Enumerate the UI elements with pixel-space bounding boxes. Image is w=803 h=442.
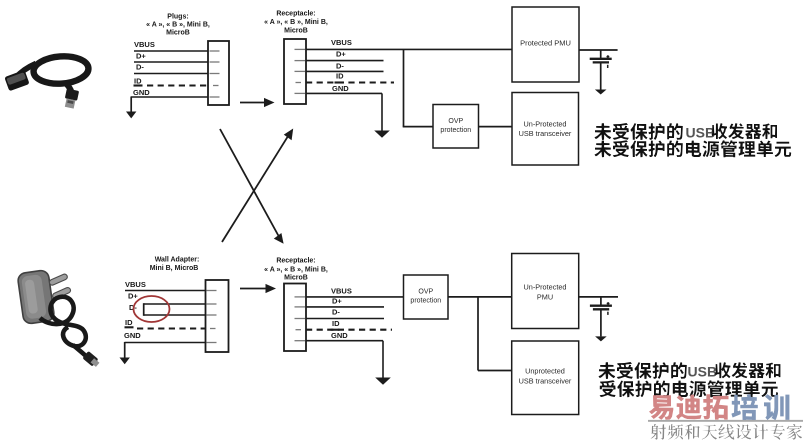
wire VBUS to OVP horizontal top <box>403 126 433 128</box>
wire D+ adapter <box>144 303 206 305</box>
pin stub GND plug <box>210 96 220 98</box>
wire GND drop bottom <box>382 341 384 378</box>
wire junction drop to transceiver <box>477 297 479 371</box>
svg-text:Receptacle:: Receptacle: <box>276 258 315 265</box>
battery B1 with ground (top) <box>579 50 618 95</box>
svg-text:ID: ID <box>336 71 344 80</box>
wire D- plug <box>134 73 209 75</box>
arrow cross up-right <box>222 129 293 243</box>
receptacle connector box top <box>284 39 306 104</box>
watermark tagline 射频和天线设计专家 <box>651 424 803 440</box>
pin stub D+ receptacle bottom <box>295 306 306 308</box>
pin stub VBUS adapter <box>207 290 217 292</box>
ground symbol receptacle bottom <box>375 378 391 385</box>
wire GND drop top <box>381 93 383 131</box>
pin stub VBUS receptacle top <box>295 48 306 50</box>
wire D- receptacle bottom <box>306 318 384 320</box>
wire D+/D- short <box>143 303 145 316</box>
svg-text:Mini B, MicroB: Mini B, MicroB <box>150 265 199 272</box>
pin stub ID receptacle top <box>296 82 302 84</box>
pin stub VBUS receptacle bottom <box>295 296 306 298</box>
svg-text:Unprotected: Unprotected <box>525 367 565 376</box>
photo: USB cable <box>4 55 89 110</box>
text CJK bottom line1 part2 收发器和 <box>715 362 780 378</box>
pin stub D- receptacle bottom <box>295 318 306 320</box>
watermark underline <box>648 420 803 422</box>
pin stub D+ adapter <box>207 303 217 305</box>
svg-text:GND: GND <box>124 331 141 340</box>
svg-text:D+: D+ <box>332 297 342 306</box>
wire D- receptacle top <box>306 70 384 72</box>
svg-text:« A », « B », Mini B,: « A », « B », Mini B, <box>264 19 328 26</box>
wire OVP to transceiver top <box>479 126 513 128</box>
svg-text:VBUS: VBUS <box>125 280 146 289</box>
svg-text:PMU: PMU <box>537 293 553 302</box>
wire D+ plug <box>134 61 209 63</box>
arrow plug to receptacle <box>240 98 275 107</box>
svg-text:Protected PMU: Protected PMU <box>520 39 571 48</box>
svg-text:USB transceiver: USB transceiver <box>519 129 572 138</box>
svg-text:Plugs:: Plugs: <box>167 13 188 20</box>
svg-text:GND: GND <box>133 88 150 97</box>
pin stub VBUS plug <box>210 50 220 52</box>
wire GND plug <box>131 96 209 98</box>
wire ID dashed adapter <box>137 327 206 329</box>
svg-text:D-: D- <box>332 308 340 317</box>
svg-text:« A », « B », Mini B,: « A », « B », Mini B, <box>264 267 328 274</box>
wire ID underline receptacle top <box>335 81 344 83</box>
wire ID dashed receptacle bottom <box>306 329 392 331</box>
svg-text:GND: GND <box>331 331 348 340</box>
svg-text:D+: D+ <box>136 52 146 61</box>
text CJK top line1 part1 未受保护的 <box>595 123 683 140</box>
text CJK bottom line2 受保护的电源管理单元 <box>600 380 778 397</box>
pin stub GND receptacle top <box>295 92 306 94</box>
watermark logo 训 <box>764 394 789 420</box>
svg-text:protection: protection <box>410 298 441 305</box>
pin stub D- receptacle top <box>295 70 306 72</box>
svg-text:D+: D+ <box>128 292 138 301</box>
svg-text:OVP: OVP <box>418 289 433 296</box>
wire VBUS receptacle to OVP bottom <box>306 296 404 298</box>
text CJK top line2 未受保护的电源管理单元 <box>595 140 792 157</box>
Protected PMU box <box>512 7 579 82</box>
pin stub ID plug <box>213 85 219 87</box>
pin stub ID adapter <box>210 328 216 330</box>
Un-Protected USB transceiver box top <box>512 93 579 166</box>
svg-text:VBUS: VBUS <box>331 286 352 295</box>
Unprotected USB transceiver box bottom <box>512 341 579 415</box>
wire VBUS adapter <box>125 290 206 292</box>
pin stub GND adapter <box>207 342 217 344</box>
Un-Protected PMU box <box>512 254 579 329</box>
svg-text:Receptacle:: Receptacle: <box>276 10 315 17</box>
svg-text:D-: D- <box>136 63 144 72</box>
wire ID dashed plug <box>147 84 209 86</box>
wire GND receptacle bottom <box>306 340 383 342</box>
pin stub GND receptacle bottom <box>295 340 306 342</box>
svg-text:Un-Protected: Un-Protected <box>524 120 567 129</box>
svg-text:D+: D+ <box>336 50 346 59</box>
pin stub D+ receptacle top <box>295 60 306 62</box>
svg-text:D-: D- <box>336 62 344 71</box>
wire D- adapter <box>144 314 206 316</box>
watermark logo 培 <box>732 394 758 421</box>
highlight ellipse around D+/D- short <box>134 296 170 322</box>
svg-text:GND: GND <box>332 84 349 93</box>
svg-text:ID: ID <box>134 77 142 86</box>
wire ID underline plug <box>134 84 143 86</box>
wire VBUS receptacle to PMU <box>306 48 513 50</box>
svg-text:« A », « B », Mini B,: « A », « B », Mini B, <box>146 22 210 29</box>
pin stub D- plug <box>210 73 220 75</box>
svg-text:OVP: OVP <box>448 118 463 125</box>
wire D+ receptacle bottom <box>306 306 384 308</box>
wire D+ receptacle top <box>306 60 384 62</box>
svg-text:VBUS: VBUS <box>331 38 352 47</box>
wire junction to transceiver <box>478 370 512 372</box>
photo: wall adapter <box>17 270 101 369</box>
svg-text:USB: USB <box>686 124 716 140</box>
wire ID underline adapter <box>125 326 134 328</box>
watermark logo 易迪拓 <box>649 394 729 420</box>
svg-text:ID: ID <box>125 318 133 327</box>
wall adapter connector box <box>206 280 229 352</box>
wire VBUS plug <box>134 50 209 52</box>
ground symbol receptacle top <box>374 131 390 138</box>
pin stub D+ plug <box>210 61 220 63</box>
svg-text:USB transceiver: USB transceiver <box>519 377 572 386</box>
ground arrow adapter GND <box>120 342 130 364</box>
wire ID underline receptacle bottom <box>331 329 340 331</box>
svg-text:VBUS: VBUS <box>134 40 155 49</box>
arrow cross down-right <box>220 129 284 244</box>
text CJK top line1 part2 收发器和 <box>712 123 777 139</box>
wire GND adapter <box>125 342 207 344</box>
wire VBUS to OVP vertical top <box>403 49 405 126</box>
svg-text:USB: USB <box>688 363 718 379</box>
wire ID dashed receptacle top <box>306 81 394 83</box>
pin stub D- adapter <box>207 314 217 316</box>
wire OVP to PMU bottom <box>448 296 512 298</box>
OVP protection box bottom <box>404 275 449 319</box>
wire GND receptacle top <box>306 92 382 94</box>
svg-text:MicroB: MicroB <box>166 29 190 36</box>
ground arrow plug GND <box>126 97 136 119</box>
receptacle connector box bottom <box>284 284 306 352</box>
battery B2 with ground (bottom) <box>579 297 618 342</box>
svg-text:Wall Adapter:: Wall Adapter: <box>155 257 200 264</box>
svg-text:protection: protection <box>440 127 471 134</box>
OVP protection box top <box>433 105 479 149</box>
arrow adapter to receptacle <box>240 284 276 293</box>
pin stub ID receptacle bottom <box>296 329 302 331</box>
svg-text:ID: ID <box>332 319 340 328</box>
plug connector box <box>208 41 229 105</box>
svg-text:MicroB: MicroB <box>284 274 308 281</box>
svg-text:MicroB: MicroB <box>284 28 308 35</box>
svg-text:Un-Protected: Un-Protected <box>524 283 567 292</box>
text CJK bottom line1 part1 未受保护的 <box>599 362 687 379</box>
